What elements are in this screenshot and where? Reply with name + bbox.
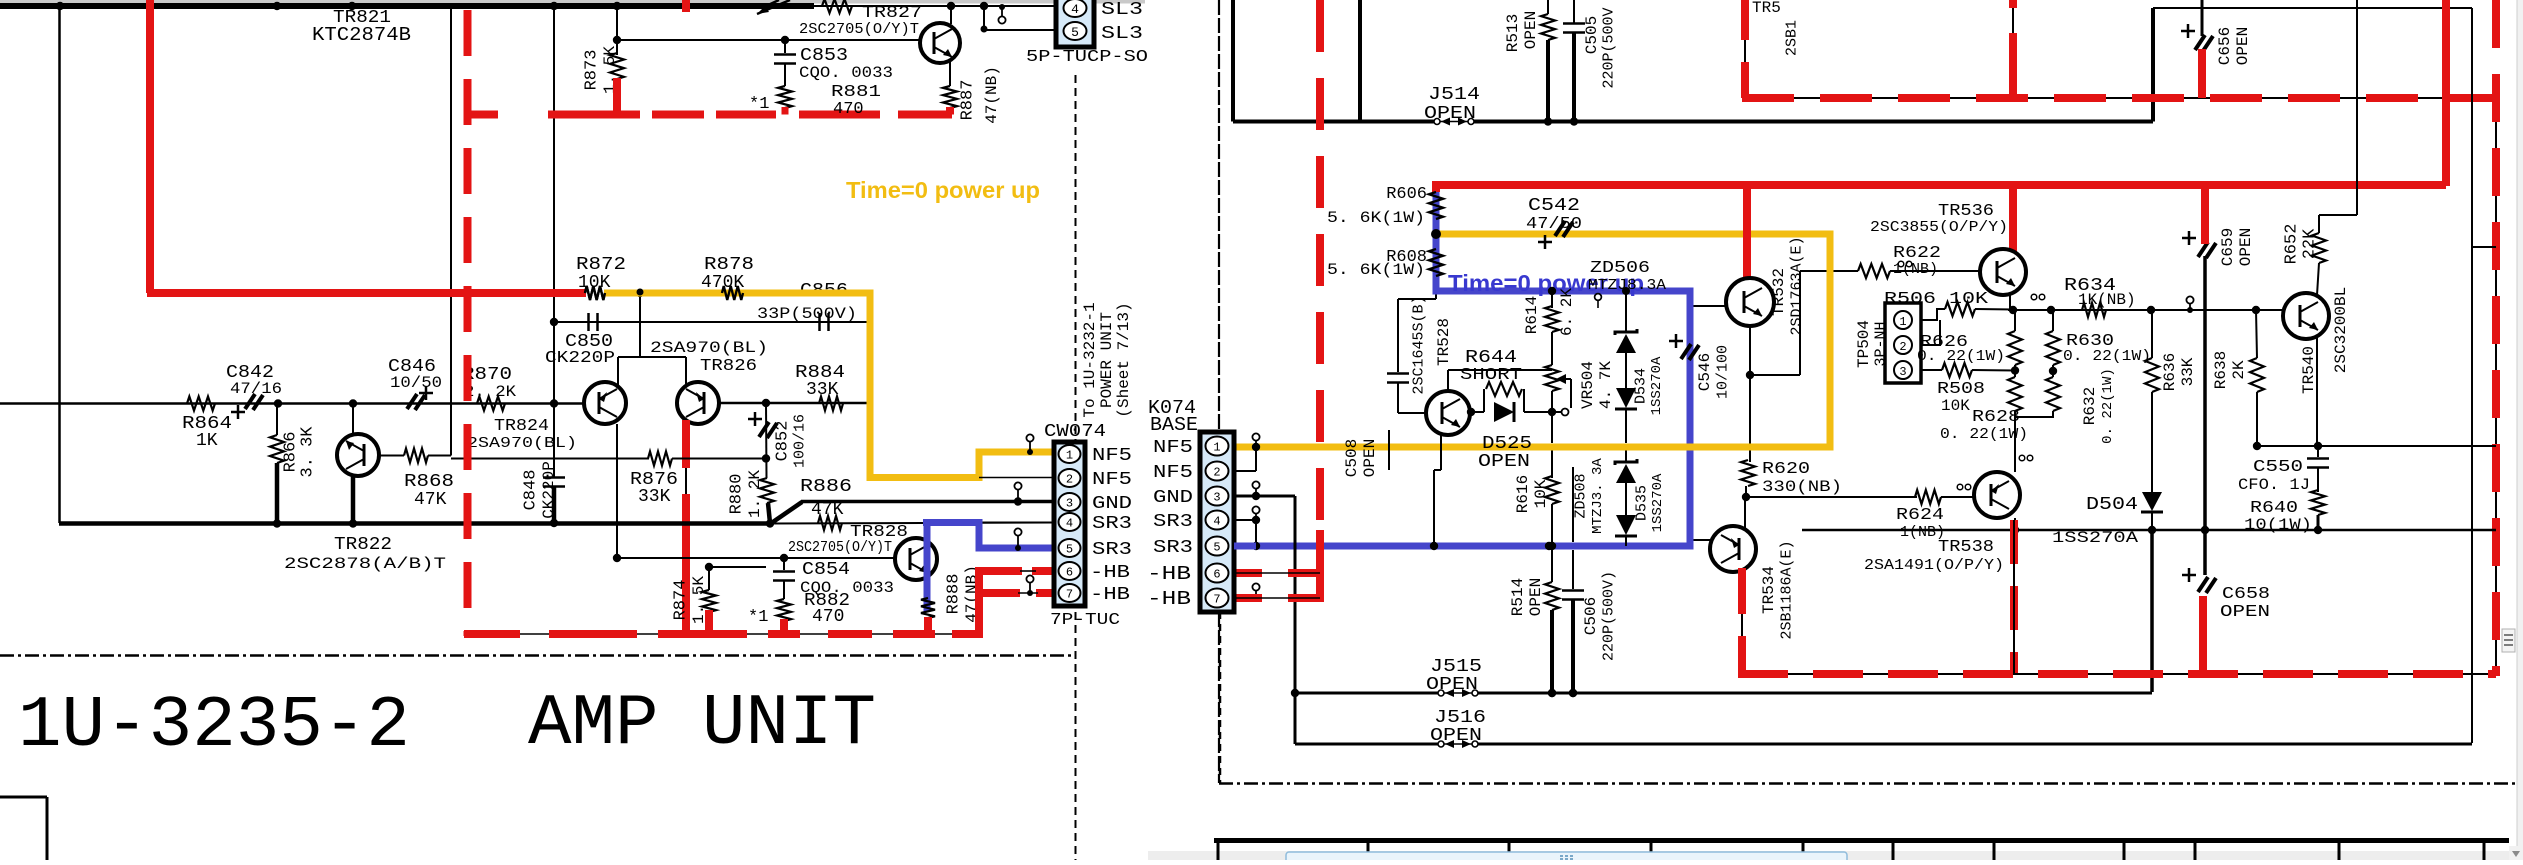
label R884 bbox=[795, 363, 845, 400]
red TR536 collector bbox=[2009, 185, 2017, 253]
capacitor C658 bbox=[2182, 530, 2270, 622]
wire: pin5 hook of 5P connector bbox=[981, 4, 1063, 33]
capacitor C854 bbox=[773, 558, 894, 599]
svg-text:ZD508: ZD508 bbox=[1573, 473, 1590, 518]
svg-text:7: 7 bbox=[1213, 593, 1220, 607]
red highlight TR826 collector bbox=[682, 420, 690, 633]
svg-text:7P-TUC: 7P-TUC bbox=[1050, 611, 1120, 630]
svg-text:2SD1763A(E): 2SD1763A(E) bbox=[1789, 236, 1806, 335]
wire: thin under pin6 pin7 bbox=[1018, 571, 1038, 593]
svg-text:VR504: VR504 bbox=[1579, 361, 1597, 409]
label TR538 bbox=[1864, 538, 2004, 574]
wire: low rail y530 bbox=[1802, 526, 2496, 534]
svg-text:SR3: SR3 bbox=[1153, 512, 1193, 532]
svg-text:C853: C853 bbox=[800, 46, 848, 66]
svg-text:-HB: -HB bbox=[1090, 563, 1130, 583]
connector CW074 7P-TUC bbox=[1054, 442, 1085, 606]
svg-text:47/50: 47/50 bbox=[1526, 215, 1582, 234]
svg-text:SR3: SR3 bbox=[1092, 540, 1132, 560]
svg-text:1SS270A: 1SS270A bbox=[1649, 356, 1665, 415]
markers left connector bbox=[1014, 434, 1033, 596]
red tip above R606 bbox=[1432, 181, 1440, 192]
scrollbar right bbox=[2517, 0, 2523, 860]
svg-text:CQO. 0033: CQO. 0033 bbox=[799, 64, 893, 82]
wire: main signal line y404 bbox=[0, 399, 870, 408]
transistor TR538 bbox=[1974, 472, 2020, 518]
wire: blue box underblack bbox=[1398, 291, 1436, 299]
transistor TR827 bbox=[920, 6, 960, 86]
resistor R514 bbox=[1509, 546, 1559, 697]
svg-text:To 1U-3232-1: To 1U-3232-1 bbox=[1081, 302, 1099, 417]
svg-text:SHORT: SHORT bbox=[1460, 366, 1522, 385]
label To POWER UNIT bbox=[1081, 302, 1133, 417]
resistor R638 bbox=[2212, 310, 2264, 446]
svg-text:6: 6 bbox=[1213, 568, 1220, 582]
diode D504 bbox=[2052, 474, 2163, 547]
wire: TR528 collector top loop bbox=[1448, 370, 1552, 391]
svg-text:NF5: NF5 bbox=[1092, 470, 1132, 490]
capacitor C842 bbox=[226, 363, 282, 419]
svg-text:6: 6 bbox=[1066, 566, 1073, 580]
label TR824 TR826 pair bbox=[467, 339, 768, 452]
labels K074 BASE bbox=[1148, 397, 1198, 436]
svg-text:1: 1 bbox=[1899, 315, 1906, 329]
node dot yellow left end bbox=[1431, 229, 1441, 239]
diode D525 bbox=[1478, 402, 1532, 472]
svg-text:SL3: SL3 bbox=[1101, 0, 1143, 20]
connector CW074 BASE box bbox=[1200, 432, 1234, 612]
svg-text:C848: C848 bbox=[522, 470, 541, 511]
wire: emitter tee bbox=[618, 289, 686, 357]
labels SL3 SL3 5P-TUCP-SO bbox=[1026, 0, 1148, 67]
wire: R876 line y458 bbox=[451, 458, 649, 460]
svg-text:TP504: TP504 bbox=[1855, 320, 1873, 368]
svg-text:CFO. 1J: CFO. 1J bbox=[2238, 476, 2310, 494]
svg-text:(Sheet 7/13): (Sheet 7/13) bbox=[1115, 302, 1133, 417]
svg-text:1. 2K: 1. 2K bbox=[746, 470, 764, 518]
svg-text:R606: R606 bbox=[1386, 185, 1427, 204]
capacitor C542 bbox=[1526, 196, 1582, 249]
resistor R506 bbox=[1884, 290, 2015, 320]
svg-text:-HB: -HB bbox=[1147, 563, 1191, 585]
resistor R628 bbox=[1940, 371, 2028, 443]
resistor R636 bbox=[2145, 310, 2197, 474]
svg-text:SL3: SL3 bbox=[1101, 24, 1143, 44]
svg-text:3: 3 bbox=[1899, 365, 1906, 379]
svg-text:OPEN: OPEN bbox=[2220, 603, 2270, 622]
svg-text:220P(500V: 220P(500V bbox=[1601, 7, 1618, 88]
red TR532 collector bbox=[1743, 185, 1751, 284]
svg-text:OPEN: OPEN bbox=[1430, 726, 1482, 746]
svg-text:AMP UNIT: AMP UNIT bbox=[528, 683, 876, 765]
svg-text:-HB: -HB bbox=[1090, 585, 1130, 605]
svg-text:2SA970(BL): 2SA970(BL) bbox=[467, 435, 577, 452]
svg-text:R872: R872 bbox=[576, 255, 626, 275]
right block dashed border vertical bbox=[1218, 0, 1220, 783]
red dashed bus y634 bbox=[464, 633, 983, 635]
blue SR3 line right of connector dots bbox=[1545, 542, 1553, 550]
svg-text:SR3: SR3 bbox=[1153, 538, 1193, 558]
resistor R622 bbox=[1800, 244, 1980, 278]
svg-text:OPEN: OPEN bbox=[1478, 452, 1530, 472]
connector CW074 pins bbox=[1059, 445, 1081, 602]
svg-text:NF5: NF5 bbox=[1092, 446, 1132, 466]
svg-text:C852: C852 bbox=[774, 421, 793, 462]
wire: x766 vertical with C852 bbox=[765, 403, 768, 478]
marker pair x2015 bbox=[2019, 455, 2033, 461]
wire: TR532 emitter branch bbox=[1746, 271, 1800, 462]
svg-text:C854: C854 bbox=[802, 560, 850, 580]
capacitor C659 bbox=[2182, 228, 2255, 266]
scroll grip icon bbox=[2502, 629, 2515, 652]
svg-text:5P-TUCP-SO: 5P-TUCP-SO bbox=[1026, 48, 1148, 67]
svg-text:3: 3 bbox=[1066, 497, 1073, 511]
wire: C508 column and TR528 base bbox=[1387, 299, 1426, 413]
transistor arrow fragment TR825 bbox=[757, 0, 790, 14]
svg-text:TR534: TR534 bbox=[1760, 566, 1778, 614]
svg-text:2SC1645S(B): 2SC1645S(B) bbox=[1411, 295, 1428, 394]
svg-text:47K: 47K bbox=[811, 500, 844, 520]
marker y310 bbox=[2186, 296, 2193, 313]
svg-text:CK220P: CK220P bbox=[545, 349, 615, 368]
resistor R626 bbox=[1917, 310, 2022, 371]
wire: long vertical x2472 bbox=[2471, 8, 2473, 743]
wire: TR528 emitter to blue bbox=[1430, 434, 1441, 550]
marker pair TR536 bbox=[2031, 294, 2045, 300]
yellow NF5 path bbox=[604, 293, 1054, 478]
label R616 bbox=[1514, 475, 1550, 513]
label TR534 bbox=[1760, 540, 1796, 639]
svg-text:TR540: TR540 bbox=[2300, 346, 2318, 394]
left block dashed border bbox=[0, 75, 1076, 860]
svg-text:4: 4 bbox=[1066, 517, 1073, 531]
svg-text:CK220P: CK220P bbox=[540, 461, 558, 519]
resistor R630 bbox=[2046, 310, 2151, 377]
svg-text:R880: R880 bbox=[728, 474, 747, 515]
resistor R881 bbox=[749, 83, 881, 119]
wire: TR528 emitter jog lower bbox=[1388, 430, 1390, 470]
svg-text:0. 22(1W): 0. 22(1W) bbox=[2063, 348, 2151, 365]
trimmer VR504 bbox=[1545, 361, 1615, 412]
svg-text:R886: R886 bbox=[800, 477, 852, 497]
label R634 value bbox=[0, 0, 1, 1]
connector 5P-TUCP bbox=[1056, 0, 1094, 47]
capacitor C856 bbox=[757, 281, 857, 331]
wire: GND jog to pin3 bbox=[770, 497, 1054, 524]
svg-text:1SS270A: 1SS270A bbox=[2052, 529, 2138, 547]
zener ZD508 bbox=[1573, 458, 1638, 534]
resistor R882 bbox=[748, 591, 850, 627]
svg-text:R638: R638 bbox=[2212, 351, 2230, 389]
red TR538 collector bbox=[2010, 520, 2018, 674]
wire: TR827 base line y40 bbox=[617, 36, 920, 44]
svg-text:MTZJ8.3A: MTZJ8.3A bbox=[1588, 277, 1666, 294]
svg-text:6. 2K: 6. 2K bbox=[1558, 288, 1576, 336]
svg-text:R652: R652 bbox=[2283, 224, 2302, 265]
red dashed vertical x1320 bbox=[1316, 0, 1324, 530]
red jog pins6-7 bbox=[975, 571, 1054, 634]
svg-text:R624: R624 bbox=[1896, 506, 1944, 525]
svg-text:7: 7 bbox=[1066, 588, 1073, 602]
wire: blue SR3 path left block underwire bbox=[927, 523, 1054, 599]
resistor R878 bbox=[701, 255, 754, 300]
wire: black under x2446 bbox=[2445, 8, 2447, 181]
red dashes x1745 and y98 bbox=[1742, 0, 2496, 98]
transistor TR540 bbox=[2283, 287, 2350, 446]
svg-text:GND: GND bbox=[1092, 494, 1132, 514]
wire: J515 riser x2152 bbox=[2150, 530, 2154, 692]
wire: bottom bus y523 bbox=[59, 519, 774, 527]
svg-text:4: 4 bbox=[1213, 515, 1220, 529]
svg-text:R873: R873 bbox=[583, 50, 602, 91]
red solid bus y185 bbox=[1437, 181, 2446, 189]
svg-text:GND: GND bbox=[1153, 488, 1193, 508]
resistor R873 bbox=[583, 6, 625, 94]
svg-text:10/100: 10/100 bbox=[1715, 345, 1732, 399]
red stub R888 to bus bbox=[924, 617, 932, 634]
svg-text:R506 10K: R506 10K bbox=[1884, 290, 1989, 309]
svg-text:TR826: TR826 bbox=[700, 357, 757, 376]
svg-text:R620: R620 bbox=[1762, 460, 1810, 479]
markers right connector bbox=[1252, 433, 1259, 601]
wire: x2013 top feed bbox=[2012, 8, 2014, 98]
jumper J516 bbox=[1295, 708, 2472, 748]
svg-text:4: 4 bbox=[1071, 2, 1079, 17]
label TR822 bbox=[284, 535, 446, 573]
scroll corner arrow bbox=[2509, 846, 2523, 860]
connector CW074 BASE pins bbox=[1206, 437, 1229, 608]
svg-text:OPEN: OPEN bbox=[2237, 228, 2255, 266]
svg-text:POWER UNIT: POWER UNIT bbox=[1098, 312, 1116, 408]
capacitor C852 bbox=[748, 412, 809, 468]
svg-text:TR538: TR538 bbox=[1938, 538, 1994, 557]
jumper J514 break bbox=[1424, 85, 1480, 126]
connector TP504 bbox=[1855, 303, 1921, 383]
svg-text:C505: C505 bbox=[1583, 16, 1601, 54]
svg-text:OPEN: OPEN bbox=[1426, 675, 1478, 695]
svg-text:2SC3855(O/P/Y): 2SC3855(O/P/Y) bbox=[1870, 219, 2008, 236]
resistor R866 bbox=[270, 404, 318, 524]
wire: R616 column bbox=[1545, 412, 1559, 550]
svg-text:C542: C542 bbox=[1528, 196, 1580, 216]
svg-text:5. 6K(1W): 5. 6K(1W) bbox=[1327, 209, 1425, 227]
bottom grey band bbox=[1148, 851, 2523, 860]
labels right connector pin names bbox=[1147, 438, 1193, 610]
wire: C854 base line y558 bbox=[613, 424, 897, 562]
svg-text:33K: 33K bbox=[638, 487, 671, 507]
resistor R872 zigzag over yellow bbox=[585, 286, 644, 300]
svg-text:1K(NB): 1K(NB) bbox=[2078, 291, 2136, 309]
svg-text:2SC3200BL: 2SC3200BL bbox=[2332, 287, 2350, 373]
wire: stub y247 bbox=[2472, 246, 2496, 248]
wire: left border vertical bbox=[58, 6, 61, 523]
svg-text:2SB1186A(E): 2SB1186A(E) bbox=[1779, 540, 1796, 639]
red solid from top x150 bbox=[146, 0, 154, 293]
wire: TR538 emitter collector column bbox=[2014, 417, 2016, 530]
svg-text:C658: C658 bbox=[2222, 585, 2270, 604]
wire: top supply bar bbox=[0, 2, 814, 10]
resistor R606 bbox=[1327, 185, 1443, 227]
resistor R884 bbox=[819, 397, 843, 411]
wire: vertical x1233 bbox=[1231, 0, 1235, 122]
capacitor C506 bbox=[1562, 467, 1618, 697]
svg-text:5: 5 bbox=[1071, 25, 1079, 40]
svg-text:100/16: 100/16 bbox=[792, 414, 809, 468]
svg-text:TR824: TR824 bbox=[494, 417, 549, 436]
capacitor C848 bbox=[522, 461, 566, 527]
marker R622 bbox=[1898, 261, 1912, 267]
svg-text:OPEN: OPEN bbox=[1527, 578, 1545, 616]
red corner x2446 bbox=[2442, 0, 2450, 186]
wire: top feed x1745 underwire bbox=[1745, 0, 2496, 674]
labels CW074 7P-TUC bbox=[1044, 422, 1120, 630]
svg-text:1: 1 bbox=[1213, 441, 1220, 455]
svg-text:2SA970(BL): 2SA970(BL) bbox=[650, 339, 768, 357]
svg-text:2: 2 bbox=[1066, 473, 1073, 487]
wire: vertical x1360 bbox=[1358, 0, 1362, 122]
svg-text:33P(500V): 33P(500V) bbox=[757, 305, 857, 323]
svg-text:C546: C546 bbox=[1696, 353, 1714, 391]
svg-text:J516: J516 bbox=[1434, 708, 1486, 728]
wire: R624 line y497 bbox=[1746, 496, 1917, 498]
svg-text:D535: D535 bbox=[1634, 485, 1651, 521]
svg-text:R887: R887 bbox=[959, 80, 978, 121]
transistor TR824 bbox=[584, 357, 626, 424]
wire: base line y310 bbox=[2008, 306, 2284, 314]
svg-text:33K: 33K bbox=[2179, 357, 2197, 386]
svg-text:1U-3235-2: 1U-3235-2 bbox=[18, 685, 410, 767]
svg-text:BASE: BASE bbox=[1150, 414, 1198, 436]
svg-text:R888: R888 bbox=[945, 574, 964, 615]
wire: C659 column x2205 bbox=[2203, 256, 2207, 530]
svg-text:KTC2874B: KTC2874B bbox=[312, 24, 411, 46]
svg-text:R513: R513 bbox=[1504, 14, 1522, 52]
label TR821 bbox=[312, 8, 411, 46]
wire: C848 vertical column bbox=[550, 6, 558, 477]
svg-text:J515: J515 bbox=[1430, 657, 1482, 677]
svg-text:C659: C659 bbox=[2219, 228, 2237, 266]
svg-text:D534: D534 bbox=[1633, 368, 1650, 404]
svg-text:1K: 1K bbox=[196, 431, 218, 451]
wire: pin2 NF5 thin bbox=[979, 477, 1054, 479]
svg-text:*1: *1 bbox=[749, 95, 769, 114]
red horizontal to R872 bbox=[147, 289, 586, 297]
svg-text:TR5: TR5 bbox=[1752, 0, 1781, 17]
title AMP UNIT bbox=[528, 683, 876, 765]
resistor R874 bbox=[672, 563, 767, 624]
svg-text:NF5: NF5 bbox=[1153, 463, 1193, 483]
capacitor C853 bbox=[774, 40, 893, 86]
transistor TR534 bbox=[1691, 497, 1756, 572]
label TR827 bbox=[799, 4, 922, 38]
resistor R880 bbox=[728, 470, 775, 523]
pale blue toolbar box bbox=[1286, 852, 1847, 865]
svg-text:5: 5 bbox=[1213, 541, 1220, 555]
svg-text:R632: R632 bbox=[2081, 387, 2099, 425]
wire: thick corner x2153 bbox=[2151, 8, 2155, 122]
svg-text:470K: 470K bbox=[701, 273, 744, 293]
resistor R868 bbox=[379, 6, 454, 510]
svg-text:2SC2705(O/Y)T: 2SC2705(O/Y)T bbox=[788, 539, 892, 556]
red stub R882 to bus bbox=[780, 619, 788, 634]
svg-text:0. 22(1W): 0. 22(1W) bbox=[2100, 368, 2116, 444]
svg-text:D525: D525 bbox=[1482, 434, 1532, 454]
svg-text:C508: C508 bbox=[1343, 439, 1361, 477]
wire: TR534 collector red bbox=[1741, 568, 1743, 678]
svg-text:2: 2 bbox=[1213, 466, 1220, 480]
jumper J515 bbox=[1295, 657, 2152, 697]
svg-text:R616: R616 bbox=[1514, 475, 1532, 513]
svg-text:TR532: TR532 bbox=[1770, 268, 1788, 316]
capacitor C505 bbox=[1563, 0, 1618, 121]
transistor TR532 bbox=[1690, 278, 1774, 326]
svg-text:5. 6K(1W): 5. 6K(1W) bbox=[1327, 261, 1425, 279]
svg-text:2SC2705(O/Y)T: 2SC2705(O/Y)T bbox=[799, 21, 919, 38]
svg-text:5: 5 bbox=[1066, 543, 1073, 557]
diode D535 bbox=[1615, 473, 1666, 546]
wire: TP504 pin2 bbox=[1921, 320, 1940, 345]
svg-text:TR528: TR528 bbox=[1435, 318, 1453, 366]
capacitor C850 on line y322 bbox=[545, 313, 870, 368]
svg-text:MTZJ3. 3A: MTZJ3. 3A bbox=[1590, 458, 1606, 534]
label TR5 2SB1 cutoff transistor bbox=[1752, 0, 1801, 56]
diode D534 bbox=[1615, 353, 1665, 461]
red stub C659 bbox=[2201, 185, 2209, 244]
svg-text:C656: C656 bbox=[2216, 27, 2234, 65]
wire: R886 line to pin4 bbox=[771, 523, 1054, 524]
resistor R640 bbox=[2244, 490, 2325, 534]
wire: right connector pin lines bbox=[1234, 443, 1299, 744]
svg-text:SR3: SR3 bbox=[1092, 514, 1132, 534]
annotation Time=0 power up yellow bbox=[846, 177, 1040, 203]
svg-text:R868: R868 bbox=[404, 472, 454, 492]
red stub top x686 bbox=[682, 0, 690, 12]
svg-text:OPEN: OPEN bbox=[1361, 439, 1379, 477]
red dashed vertical x467 bbox=[464, 10, 472, 636]
svg-text:2SA1491(O/P/Y): 2SA1491(O/P/Y) bbox=[1864, 557, 2004, 574]
transistor TR826 bbox=[677, 357, 719, 424]
svg-text:47/16: 47/16 bbox=[230, 380, 282, 398]
svg-text:ZD506: ZD506 bbox=[1590, 259, 1650, 278]
red stub R881 bbox=[782, 107, 789, 115]
transistor TR528 bbox=[1426, 391, 1470, 435]
svg-text:10/50: 10/50 bbox=[390, 374, 442, 392]
label TR532 bbox=[1770, 236, 1806, 335]
red stub R874 to bus bbox=[705, 610, 713, 634]
resistor R620 bbox=[1741, 460, 1842, 501]
resistor R624 bbox=[1896, 490, 1975, 541]
red over yellow at TR532 collector bbox=[1743, 227, 1751, 242]
capacitor C550 bbox=[2238, 446, 2329, 494]
capacitor C846 bbox=[388, 357, 442, 410]
yellow NF5 right path bbox=[1234, 234, 1830, 447]
red stub C658 bbox=[2199, 596, 2207, 676]
resistor R513 bbox=[1504, 0, 1555, 121]
svg-text:Time=0 power up: Time=0 power up bbox=[846, 177, 1040, 203]
blue highlight pin5 stub bbox=[1234, 543, 1256, 550]
svg-text:*1: *1 bbox=[748, 608, 768, 627]
capacitor C546 bbox=[1669, 334, 1732, 399]
svg-text:33K: 33K bbox=[806, 380, 839, 400]
capacitor C656 bbox=[2181, 0, 2252, 65]
wire: thin under red pins bbox=[1234, 573, 1320, 598]
resistor R644 bbox=[1460, 348, 1522, 396]
svg-text:0. 22(1W): 0. 22(1W) bbox=[1917, 348, 2005, 365]
marker ZD506 top bbox=[1595, 294, 1602, 308]
svg-text:OPEN: OPEN bbox=[1522, 11, 1540, 49]
svg-text:R644: R644 bbox=[1465, 348, 1517, 368]
svg-text:C550: C550 bbox=[2253, 458, 2303, 477]
